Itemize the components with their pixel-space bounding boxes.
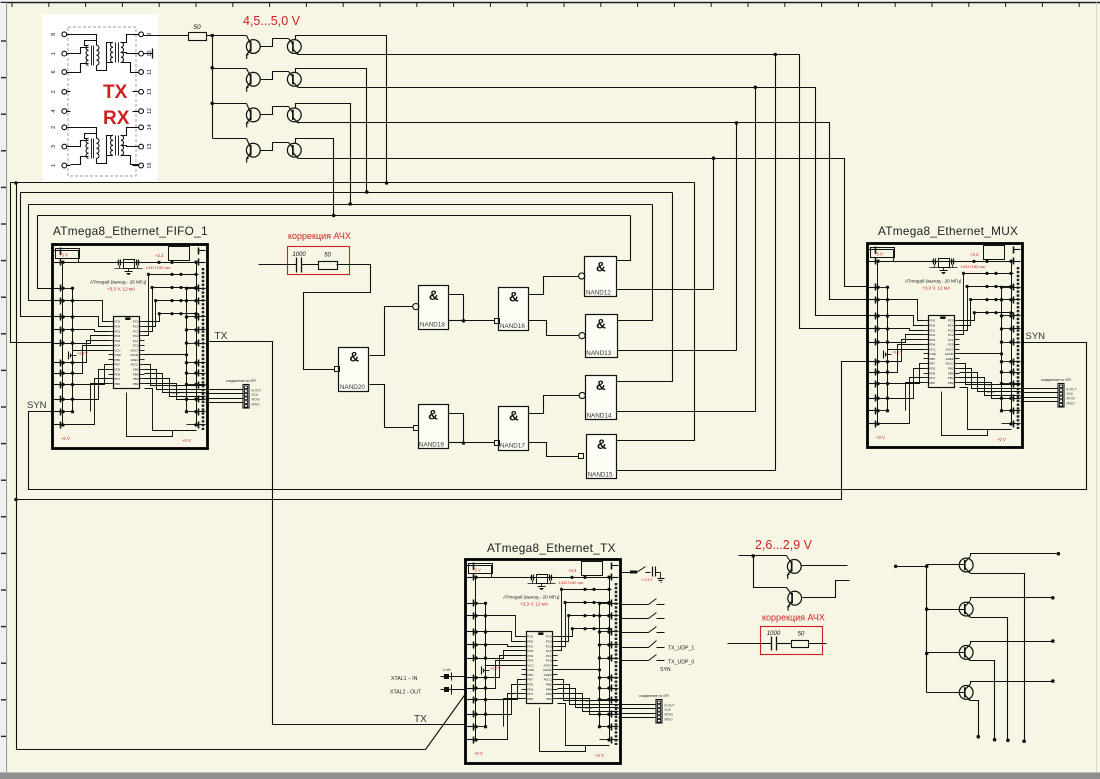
svg-text:13: 13 <box>147 144 153 150</box>
svg-text:50: 50 <box>798 632 805 638</box>
transformer RX channel windings <box>86 138 89 143</box>
transformer left pins <box>62 32 67 37</box>
transistor Q6 <box>787 591 802 610</box>
svg-text:1000: 1000 <box>292 252 306 258</box>
wire Q8 emitter down <box>971 618 1008 741</box>
wire Q7 collector out <box>971 554 1059 557</box>
wire lower long net y=499.5 <box>17 362 867 500</box>
wire NAND19 cross-couple <box>449 414 495 443</box>
wire cap-res box2 <box>777 643 792 645</box>
wire left vertical x=16 <box>16 183 18 750</box>
wire emitter 4 to NAND pin <box>713 159 715 290</box>
svg-text:11: 11 <box>147 69 153 75</box>
NAND pinB links <box>617 289 714 291</box>
svg-text:NAND16: NAND16 <box>500 323 525 330</box>
svg-text:коррекция АЧХ: коррекция АЧХ <box>288 231 351 241</box>
wire Q8 collector out <box>971 598 1053 601</box>
svg-text:NAND18: NAND18 <box>420 322 445 329</box>
wire Q3b emitter long run <box>299 122 737 124</box>
resistor R 50 in box1 <box>319 262 338 270</box>
wire bottom TX run <box>17 749 426 751</box>
bus wire B3 horizontal y=204 <box>29 204 653 206</box>
gate NAND13 <box>586 315 618 358</box>
gate NAND16 <box>499 288 529 331</box>
svg-text:SYN: SYN <box>1026 331 1046 342</box>
transformer TX channel windings <box>86 45 89 50</box>
wire Q7 emitter down <box>971 574 1025 742</box>
wire feed bottom group <box>896 566 927 568</box>
XTAL symbols <box>441 676 466 678</box>
NAND pinA vertical links <box>617 216 631 261</box>
wire Q6 out <box>803 581 850 598</box>
wire Q9 emitter down <box>971 661 995 740</box>
svg-text:TX_UDP_0: TX_UDP_0 <box>668 660 694 666</box>
transistor Q2a left <box>213 68 247 70</box>
svg-text:ATmega8_Ethernet_TX: ATmega8_Ethernet_TX <box>487 541 616 555</box>
svg-text:SYN: SYN <box>660 667 671 673</box>
transistor Q1a left <box>213 35 247 37</box>
svg-text:+ 3,3 V: + 3,3 V <box>641 578 653 582</box>
NAND16 input square <box>495 319 500 324</box>
wire Q2b emitter long run <box>299 87 756 89</box>
svg-text:XTAL2 - OUT: XTAL2 - OUT <box>390 690 422 696</box>
wire box2 out <box>809 643 827 645</box>
transformer module dashed outline <box>68 27 136 176</box>
transistor Q3a left <box>213 103 247 105</box>
NAND20 input square <box>335 367 340 372</box>
gate NAND18 <box>419 286 449 330</box>
bottom gray bar <box>0 773 1100 779</box>
svg-text:2,6...2,9 V: 2,6...2,9 V <box>755 538 813 552</box>
svg-text:NAND14: NAND14 <box>587 413 612 420</box>
bus wire B2 horizontal y=192 <box>21 192 673 194</box>
svg-text:ATmega8_Ethernet_MUX: ATmega8_Ethernet_MUX <box>878 224 1018 238</box>
wire emitter 3 jog to MUX <box>737 123 867 300</box>
svg-text:1000: 1000 <box>767 631 781 637</box>
gate NAND15 <box>587 435 617 479</box>
wire Q1b collector to bus <box>296 36 387 183</box>
wire transformer pin9 to R1 <box>144 35 189 37</box>
NAND14 input bubble <box>579 392 585 398</box>
wire emitter 4 jog to MUX <box>714 159 867 287</box>
svg-text:NAND12: NAND12 <box>586 289 611 296</box>
NAND13 input bubble <box>579 333 585 339</box>
svg-text:8: 8 <box>51 33 57 36</box>
wire emitter 2 jog to MUX <box>756 88 867 316</box>
wire NAND16 out to NAND12 <box>529 277 579 295</box>
correction box 2 red rect <box>761 627 823 655</box>
wire NAND20 out to NAND18 <box>370 307 413 356</box>
svg-text:2: 2 <box>51 126 57 129</box>
svg-text:6: 6 <box>51 70 57 73</box>
svg-text:&: & <box>509 290 519 305</box>
ruler ticks top <box>12 3 1079 7</box>
transistor Q4b right <box>261 143 289 151</box>
NAND12 input bubble <box>579 273 585 279</box>
svg-text:TX_UDP_1: TX_UDP_1 <box>668 646 694 652</box>
resistor R 50 <box>189 33 207 41</box>
transistor Q3b right <box>261 107 289 115</box>
gate NAND19 <box>419 405 449 449</box>
svg-text:TX: TX <box>215 331 228 342</box>
bus wire B4 horizontal y=215.5 <box>38 215 631 217</box>
svg-text:TX: TX <box>414 714 427 725</box>
gate NAND17 <box>499 407 529 451</box>
wire SYN net FIFO to MUX <box>29 343 1087 490</box>
wire Q4b collector to bus <box>296 139 334 216</box>
svg-text:&: & <box>429 288 439 303</box>
bus wire B1 horizontal y=183 <box>11 182 695 184</box>
svg-text:&: & <box>596 259 606 274</box>
svg-text:NAND13: NAND13 <box>586 350 611 357</box>
svg-text:16: 16 <box>147 162 153 168</box>
wire NAND18 cross-couple <box>449 295 495 321</box>
diagonal TX pointer <box>426 693 467 750</box>
svg-text:SYN: SYN <box>27 400 47 411</box>
gate NAND20 <box>339 348 369 392</box>
wire lead into box1 <box>259 264 297 266</box>
transistor Q5 <box>787 560 802 579</box>
svg-text:TX: TX <box>103 82 128 103</box>
svg-text:1: 1 <box>51 164 57 167</box>
svg-text:3: 3 <box>51 145 57 148</box>
wire Q10 collector out <box>971 682 1053 685</box>
NAND17 input square <box>495 441 500 446</box>
transistor Q10 <box>927 692 965 694</box>
vertical base feed bus <box>212 36 214 139</box>
ruler ticks left <box>1 41 6 736</box>
svg-text:X-Me: X-Me <box>443 668 451 672</box>
svg-text:NAND15: NAND15 <box>588 471 613 478</box>
wire feed pair <box>739 555 787 557</box>
svg-text:&: & <box>596 378 606 393</box>
svg-text:NAND19: NAND19 <box>419 442 444 449</box>
svg-text:NAND17: NAND17 <box>500 443 525 450</box>
svg-text:ATmega8_Ethernet_FIFO_1: ATmega8_Ethernet_FIFO_1 <box>53 224 208 238</box>
capacitor C 1000 box2 <box>771 637 773 651</box>
sheet frame top line <box>1 2 1100 4</box>
wire pin10 termination <box>144 53 153 55</box>
NAND19 input square <box>414 426 419 431</box>
frame right faint line <box>1096 3 1098 773</box>
wire Q10 emitter down <box>971 701 979 737</box>
svg-text:&: & <box>349 350 359 365</box>
wire emitter 1 to NAND pin <box>775 55 777 471</box>
wire Q3b collector to bus <box>296 104 351 205</box>
wire Q2b collector to bus <box>296 69 367 193</box>
svg-text:&: & <box>428 408 438 423</box>
transistor Q1b right <box>261 39 289 47</box>
transistor Q8 <box>927 609 965 611</box>
wire NAND20 out to NAND19 <box>370 385 414 428</box>
svg-text:2: 2 <box>51 90 57 93</box>
svg-text:4,5...5,0 V: 4,5...5,0 V <box>243 14 301 28</box>
transistor Q2b right <box>261 72 289 80</box>
vertical feed bottom group <box>926 567 928 693</box>
left nest wires to FIFO pins <box>11 183 53 343</box>
svg-text:14: 14 <box>147 124 153 130</box>
svg-text:4: 4 <box>51 110 57 113</box>
wire cap to resistor <box>302 264 319 266</box>
svg-text:&: & <box>597 437 607 452</box>
svg-text:RX: RX <box>103 108 130 129</box>
transistor Q4a left <box>213 138 247 140</box>
svg-text:50: 50 <box>324 253 331 259</box>
sheet frame left line <box>6 3 8 773</box>
wire Q5 out <box>801 565 848 567</box>
svg-text:XTAL1 – IN: XTAL1 – IN <box>391 676 418 682</box>
wire emitter 1 jog to MUX <box>776 55 867 329</box>
TX top-right switch and ground <box>621 572 637 574</box>
wire Q4b emitter long run <box>299 158 714 160</box>
svg-text:&: & <box>596 317 606 332</box>
wire R1 to base bus <box>207 35 213 37</box>
wire Q9 collector out <box>971 642 1053 645</box>
gate NAND12 <box>585 257 617 297</box>
transistor Q9 <box>927 652 965 654</box>
NAND18 input bubble <box>413 304 419 310</box>
gate NAND14 <box>586 376 617 420</box>
wire lead into box2 <box>728 643 772 645</box>
TX right switches <box>621 604 649 606</box>
svg-text:13: 13 <box>147 89 153 95</box>
capacitor C 1000 <box>296 258 298 273</box>
NAND15 input square <box>579 454 584 459</box>
wire NAND16 out to NAND13 <box>529 321 579 336</box>
wire Q1b emitter long run <box>299 54 776 56</box>
svg-text:коррекция АЧХ: коррекция АЧХ <box>762 613 825 623</box>
svg-text:50: 50 <box>193 24 201 31</box>
wire emitter 2 to NAND pin <box>755 88 757 412</box>
svg-text:12: 12 <box>147 108 153 114</box>
svg-text:NAND20: NAND20 <box>340 384 365 391</box>
transformer right pins <box>139 32 144 37</box>
correction box 1 red rect <box>288 247 350 275</box>
svg-text:1: 1 <box>51 52 57 55</box>
wire TX net FIFO to TX block <box>207 342 466 725</box>
resistor 50 box2 <box>792 641 809 648</box>
svg-text:&: & <box>509 409 519 424</box>
wire emitter 3 to NAND pin <box>736 123 738 351</box>
wire box1 out zigzag to NAND20 <box>304 265 371 370</box>
wire NAND17 out to NAND15 <box>529 443 579 457</box>
transistor Q7 <box>927 564 965 566</box>
transformer module T1 white patch <box>43 15 158 182</box>
wire NAND17 out to NAND14 <box>529 396 580 414</box>
